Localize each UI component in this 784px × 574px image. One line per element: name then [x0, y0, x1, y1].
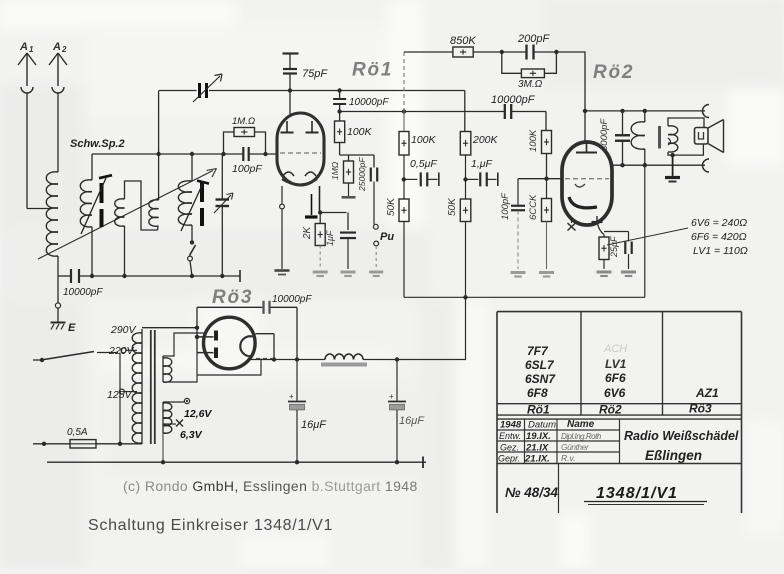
- svg-text:Rö3: Rö3: [689, 402, 712, 416]
- antenna coil L1: [46, 168, 58, 276]
- svg-text:75pF: 75pF: [302, 68, 328, 80]
- loudspeaker LS: [695, 120, 724, 153]
- svg-text:850K: 850K: [450, 35, 476, 47]
- svg-text:Pu: Pu: [380, 231, 394, 243]
- wire B+ rail: [404, 295, 645, 359]
- rectifier Ro3: [197, 317, 255, 369]
- approval rows: [498, 419, 602, 464]
- svg-text:Datum: Datum: [528, 420, 556, 431]
- Ro1 cathode tab: [305, 186, 320, 217]
- output transformer T1: [631, 111, 704, 165]
- svg-text:16μF: 16μF: [399, 415, 425, 427]
- capacitor 100pF Ro2 grid: [500, 179, 526, 277]
- svg-text:200pF: 200pF: [517, 33, 550, 45]
- svg-text:25μF: 25μF: [609, 236, 619, 258]
- svg-text:1MΩ: 1MΩ: [330, 161, 340, 180]
- wire output return line: [612, 159, 709, 172]
- capacitor 10000pF coupling to Ro2 grid line: [333, 91, 389, 112]
- wire Ro3 anode feed: [195, 307, 199, 352]
- capacitor 25uF cathode Ro2: [604, 232, 636, 277]
- resistor 6CCK grid leak Ro2: [528, 179, 554, 277]
- wire RF bus (chassis): [58, 270, 240, 282]
- svg-text:Rö2: Rö2: [599, 403, 622, 417]
- svg-text:1,μF: 1,μF: [471, 158, 493, 170]
- svg-text:200K: 200K: [472, 134, 499, 146]
- mains switch: [33, 352, 122, 446]
- capacitor 10000pF antenna earth: [63, 269, 103, 298]
- terminal 12.6V: [163, 398, 212, 420]
- svg-text:1: 1: [29, 45, 34, 54]
- terminal 6.3V: [163, 420, 203, 442]
- svg-text:19.IX.: 19.IX.: [526, 431, 551, 442]
- triode Ro1: [277, 113, 324, 185]
- svg-text:+: +: [389, 392, 394, 401]
- label tube bias values: [691, 217, 748, 257]
- svg-text:0,5μF: 0,5μF: [410, 158, 437, 170]
- svg-text:6V6: 6V6: [604, 386, 626, 400]
- wire filament winding loop: [163, 333, 204, 356]
- mains transformer primary: [132, 329, 142, 444]
- capacitor 0,5uF: [402, 158, 439, 186]
- wire transformer to B+ rail: [644, 165, 646, 297]
- svg-text:AZ1: AZ1: [695, 386, 719, 400]
- svg-text:LV1 = 110Ω: LV1 = 110Ω: [693, 245, 748, 257]
- svg-text:Entw.: Entw.: [499, 431, 521, 441]
- pentode Ro2: [562, 142, 612, 225]
- svg-text:(c) Rondo GmbH, Esslingen b.St: (c) Rondo GmbH, Esslingen b.Stuttgart 19…: [123, 478, 418, 494]
- svg-text:2: 2: [61, 45, 67, 54]
- PSU return rail: [47, 457, 426, 469]
- resistor 100K divider: [399, 132, 437, 200]
- drawing number row: [505, 485, 707, 505]
- coil L5: [178, 154, 192, 242]
- svg-text:2K: 2K: [302, 225, 313, 240]
- earth terminal E: [51, 276, 77, 334]
- svg-text:Dipl.Ing.Roth: Dipl.Ing.Roth: [561, 432, 602, 441]
- wire dash-dot AVC branch: [403, 52, 405, 132]
- capacitor 3000pF: [599, 111, 630, 165]
- core of L2 (adjustable): [81, 175, 112, 234]
- terminal Pu (pickup): [369, 224, 394, 276]
- resistor 1M screen bleeder: [330, 155, 356, 197]
- wire A1 to antenna coil: [27, 208, 52, 210]
- resistor 100K screen: [335, 112, 373, 156]
- svg-text:21.IX.: 21.IX.: [524, 453, 550, 464]
- svg-text:Rö3: Rö3: [212, 287, 253, 308]
- wire screen node: [340, 154, 374, 156]
- svg-text:A: A: [52, 41, 61, 53]
- trimmer capacitor C-trim: [214, 154, 233, 276]
- wire grid line left drop: [91, 154, 93, 180]
- svg-text:Eßlingen: Eßlingen: [645, 448, 702, 463]
- svg-text:25000pF: 25000pF: [357, 157, 367, 192]
- svg-text:6F8: 6F8: [527, 386, 548, 400]
- svg-text:6SN7: 6SN7: [525, 372, 556, 386]
- resistor 50K left: [386, 197, 409, 297]
- wire Ro2 grid line (line B): [340, 112, 546, 131]
- band switch S1: [188, 240, 196, 276]
- node dots on RF bus: [90, 274, 94, 278]
- antenna A1: [18, 41, 36, 209]
- capacitor 100pF grid: [232, 147, 262, 175]
- svg-text:10000pF: 10000pF: [491, 94, 536, 106]
- coil L3: [115, 181, 158, 276]
- capacitor 10000pF Ro3: [197, 294, 312, 360]
- wire grid line to Ro1: [92, 153, 278, 155]
- tap 220V: [108, 345, 137, 357]
- svg-text:Gepr.: Gepr.: [498, 453, 520, 463]
- svg-text:100K: 100K: [347, 126, 373, 138]
- resistor 850K: [404, 35, 502, 57]
- company Radio Weissschaedel Esslingen: [624, 429, 739, 463]
- tube list column Ro1: [525, 344, 556, 400]
- resistor 100K grid stopper Ro2: [528, 129, 552, 179]
- svg-text:50K: 50K: [447, 197, 458, 216]
- resistor 2K: [302, 213, 328, 277]
- svg-text:Name: Name: [567, 419, 595, 430]
- svg-text:Rö2: Rö2: [593, 62, 634, 83]
- svg-text:6F6: 6F6: [605, 371, 626, 385]
- wire Ro2 plate to feedback node: [584, 111, 586, 142]
- svg-text:Günther: Günther: [561, 442, 590, 452]
- Ro1 internal grid dash: [280, 152, 321, 154]
- svg-text:1348/1/V1: 1348/1/V1: [596, 485, 678, 502]
- speaker output ground: [665, 153, 680, 182]
- Ro2 cathode X mark: [568, 218, 576, 231]
- core of L5 (adjustable): [181, 181, 209, 231]
- svg-text:№ 48/34: № 48/34: [505, 485, 558, 500]
- svg-text:290V: 290V: [110, 324, 137, 336]
- Ro2 cathode lead: [592, 216, 605, 235]
- svg-text:1μF: 1μF: [325, 230, 335, 246]
- title block frame: [497, 312, 742, 513]
- svg-text:100pF: 100pF: [500, 192, 511, 220]
- svg-text:ACH: ACH: [603, 343, 627, 355]
- wire Ro2 grid line: [518, 177, 609, 181]
- svg-text:220V: 220V: [108, 345, 135, 357]
- wire feedback to Ro2 plate: [556, 52, 585, 111]
- capacitor 10000pF grid Ro2: [491, 94, 536, 119]
- capacitor 1uF coupling: [463, 158, 498, 186]
- filament winding Ro3: [163, 356, 172, 382]
- capacitor 25000pF: [357, 155, 377, 224]
- svg-text:6SL7: 6SL7: [525, 358, 555, 372]
- electrolytic 16uF first: [288, 360, 327, 463]
- tap 125V: [107, 389, 137, 401]
- svg-text:6CCK: 6CCK: [528, 194, 539, 220]
- svg-text:Rö1: Rö1: [527, 403, 550, 417]
- svg-text:A: A: [19, 41, 28, 53]
- resistor 200K: [460, 132, 498, 200]
- resistor 50K right: [447, 197, 471, 297]
- svg-text:100pF: 100pF: [232, 163, 262, 175]
- pointer line to cathode values: [607, 228, 688, 245]
- wire Ro1 plate stub: [289, 91, 291, 115]
- svg-text:6F6 = 420Ω: 6F6 = 420Ω: [691, 231, 747, 243]
- svg-text:16μF: 16μF: [301, 419, 327, 431]
- svg-text:100K: 100K: [528, 129, 539, 152]
- svg-text:Rö1: Rö1: [352, 60, 393, 81]
- resistor cathode bias Ro2: [597, 235, 612, 277]
- Ro1 grid-cap lead and terminal: [275, 186, 290, 275]
- wire Ro1 plate line: [159, 91, 465, 132]
- wire cathode node: [318, 210, 347, 214]
- svg-text:21.IX: 21.IX: [525, 442, 549, 453]
- svg-text:100K: 100K: [411, 134, 437, 146]
- capacitor 200pF: [502, 33, 557, 60]
- B+ line from rectifier: [248, 357, 466, 361]
- wire Ro2 plate line: [585, 105, 709, 118]
- svg-text:Schaltung Einkreiser 1348/1/V1: Schaltung Einkreiser 1348/1/V1: [88, 517, 333, 534]
- svg-text:0,5A: 0,5A: [67, 427, 88, 438]
- row labels Ro1 Ro2 Ro3: [527, 402, 712, 417]
- resistor 3M: [502, 52, 557, 90]
- svg-text:1M.Ω: 1M.Ω: [232, 116, 255, 127]
- capacitor 1uF cathode: [325, 213, 356, 277]
- svg-text:LV1: LV1: [605, 357, 627, 371]
- svg-text:10000pF: 10000pF: [63, 287, 103, 298]
- filter choke: [321, 354, 367, 364]
- svg-text:E: E: [68, 322, 76, 334]
- wire secondary to speaker: [673, 144, 704, 155]
- tuning gang diagonal arrow: [38, 169, 217, 260]
- svg-text:6,3V: 6,3V: [180, 429, 203, 441]
- coil L4: [149, 91, 159, 230]
- svg-text:Schw.Sp.2: Schw.Sp.2: [70, 138, 125, 150]
- electrolytic 16uF second: [388, 360, 425, 463]
- svg-text:Gez.: Gez.: [500, 442, 519, 452]
- coil L2: [80, 180, 92, 276]
- tuning capacitor C1 (variable): [193, 74, 222, 102]
- wire 290V to Ro3: [142, 327, 197, 329]
- svg-text:50K: 50K: [386, 197, 397, 216]
- heater winding 12.6/6.3V: [163, 402, 172, 462]
- capacitor 75pF: [283, 54, 329, 91]
- svg-text:+: +: [289, 392, 294, 401]
- svg-text:6V6 = 240Ω: 6V6 = 240Ω: [691, 217, 747, 229]
- svg-text:3000pF: 3000pF: [599, 118, 610, 151]
- svg-text:3M.Ω: 3M.Ω: [518, 79, 543, 90]
- wire Ro3 filament to B+: [256, 334, 275, 360]
- svg-text:10000pF: 10000pF: [349, 97, 389, 108]
- resistor 1M grid leak: [224, 116, 266, 154]
- svg-text:10000pF: 10000pF: [272, 294, 312, 305]
- fuse 0,5A: [33, 427, 142, 448]
- antenna A2: [49, 41, 67, 168]
- svg-text:Radio Weißschädel: Radio Weißschädel: [624, 429, 739, 443]
- svg-text:12,6V: 12,6V: [184, 408, 212, 420]
- svg-text:7F7: 7F7: [527, 344, 549, 358]
- transformer core: [151, 330, 155, 444]
- svg-text:R.v.: R.v.: [561, 453, 575, 463]
- svg-text:1948: 1948: [500, 420, 522, 431]
- tube list column Ro2: [603, 343, 627, 400]
